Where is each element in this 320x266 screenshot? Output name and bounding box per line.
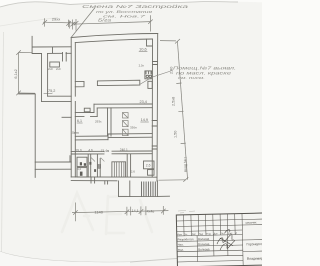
svg-text:23,4: 23,4 [140,100,147,104]
top right room wall [147,39,153,46]
svg-text:Волкова: Волкова [198,242,210,246]
paper bottom edge [0,252,262,263]
svg-text:240,1: 240,1 [120,148,128,152]
big room bottom wall (right part) [94,104,152,108]
dimension: bottom horizontal [72,203,168,222]
svg-text:заказчик: заказчик [245,220,257,224]
stair rails [112,162,126,177]
big room bottom wall (left part) [75,113,97,117]
rotated dim texts [14,16,188,214]
yard vertical line [34,94,36,177]
svg-text:6,1х2: 6,1х2 [14,69,18,78]
svg-text:2,5х8: 2,5х8 [171,97,175,106]
room labels [48,46,151,173]
main top wall [71,34,158,43]
vestibule door box [50,62,60,67]
stamp right part texts [245,220,263,261]
stair treads [114,162,124,177]
svg-text:2х0: 2х0 [48,67,53,71]
svg-text:2,0х: 2,0х [139,64,145,68]
vent shaft boxes [123,113,129,136]
wc room boxes [77,157,87,166]
sink hatch box [98,164,101,168]
dimension: top-left 29xx [42,18,78,30]
wc partition 2 [97,154,100,177]
svg-text:14,9: 14,9 [141,118,148,122]
door swing diagonals [91,158,104,162]
svg-text:14,1: 14,1 [132,209,139,213]
svg-text:336н: 336н [130,126,137,130]
svg-text:10,6: 10,6 [139,46,148,51]
stamp signatures scribble [217,230,235,251]
paper top edge [0,2,238,7]
svg-text:1,2: 1,2 [77,167,81,171]
left outside corridor [35,156,71,170]
right wall fixture box [145,71,152,79]
svg-text:4х4в: 4х4в [147,209,155,213]
svg-text:Владимир: Владимир [247,256,262,260]
svg-text:293х: 293х [95,120,102,124]
mid lower partition [127,154,130,177]
mid vertical partition upper [108,108,112,136]
bottom wall [71,177,157,181]
svg-text:Б/га: Б/га [98,18,112,23]
corridor lower wall [71,151,152,154]
wall stub in big room [75,82,84,87]
corridor upper wall [75,134,152,140]
faint watermark letters [62,193,152,234]
left wall tick [62,116,71,118]
svg-text:4,6: 4,6 [88,148,93,152]
yard connector line [19,93,36,95]
porch steps hatch [142,182,156,197]
title block group [176,213,269,266]
top-left protrusion box [32,36,71,53]
dimension: top horizontal [69,15,152,31]
svg-text:Пол.: Пол. [178,248,184,252]
svg-text:Горэнерго: Горэнерго [246,242,262,246]
leader from right text [138,70,173,85]
small room right box [144,161,155,169]
corridor upper wall step [107,134,109,140]
wc dark fixtures [80,162,96,176]
svg-text:1,50: 1,50 [174,131,178,138]
svg-text:2,6: 2,6 [131,170,136,174]
right wall [152,34,158,182]
svg-text:29хх: 29хх [52,16,60,21]
stamp right part rows [242,219,269,252]
paper left edge [2,32,4,256]
wc partition 1 [88,154,91,177]
porch outline [119,181,158,197]
handwriting right block [173,66,236,81]
stamp horizontal lines left part [176,213,269,266]
svg-text:1140: 1140 [94,209,103,214]
svg-text:Изм: Изм [177,233,182,236]
main left wall [71,38,75,178]
svg-text:см. писм.: см. писм. [178,75,205,80]
svg-text:Летн: Летн [72,131,79,135]
svg-text:Волкова: Волкова [198,237,210,241]
svg-text:Разработал: Разработал [178,237,194,241]
step verticals [94,104,97,116]
label underlines [44,51,149,123]
stamp header tiny text [177,232,237,236]
dimension: right vertical [159,39,189,182]
svg-text:2,6: 2,6 [146,163,151,167]
svg-text:2х0: 2х0 [56,67,61,71]
svg-text:6,1: 6,1 [77,119,82,123]
right wall pilaster ticks [152,62,157,150]
faint marks above stamp [178,210,195,213]
stamp vertical divider [242,214,243,266]
svg-text:75,2: 75,2 [48,89,55,93]
svg-text:Чел.: Чел. [178,243,184,247]
svg-text:19,0: 19,0 [75,148,81,152]
door threshold ticks bottom wall [91,177,108,184]
svg-text:Под: Под [206,233,211,236]
wing bottom wall [42,96,72,101]
right wall niche [148,81,152,88]
small room right inner [148,170,155,176]
left wing outer wall [42,53,48,101]
svg-text:71,4м: 71,4м [101,149,109,153]
counter bar [97,80,139,85]
stamp vertical lines top band [184,214,236,236]
stamp left col texts [178,237,210,252]
svg-text:№д: №д [199,233,204,236]
vestibule stub vertical [63,52,67,61]
dimension leader diagonal [71,8,95,38]
svg-text:вход №1: вход №1 [183,157,187,172]
door leaf in step wall [84,108,90,112]
dimension: left vertical [16,50,35,95]
stamp outer border [176,213,269,266]
porch bottom extension [157,195,169,197]
stamp vertical lines body [197,235,228,262]
svg-text:2,90: 2,90 [170,67,174,74]
faint crease line [0,18,58,27]
handwriting top line1 [82,4,190,23]
svg-text:Волкова: Волкова [198,247,210,251]
